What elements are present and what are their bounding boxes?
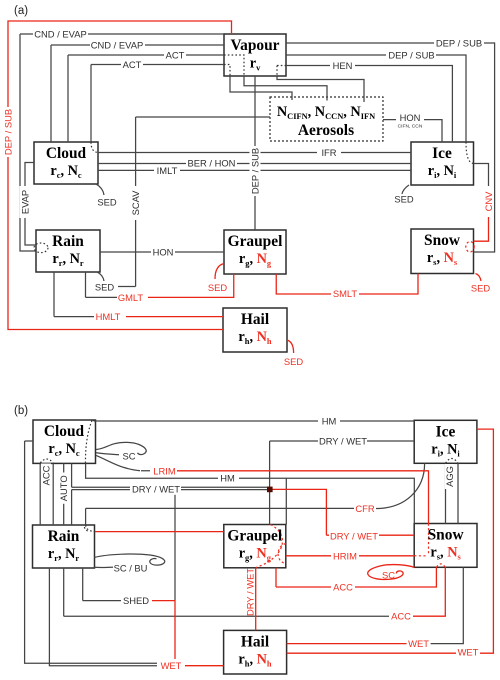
svg-text:HMLT: HMLT bbox=[96, 311, 121, 322]
svg-text:SED: SED bbox=[284, 356, 304, 367]
svg-text:WET: WET bbox=[161, 660, 182, 671]
svg-text:WET: WET bbox=[408, 638, 429, 649]
svg-text:Ice: Ice bbox=[436, 424, 456, 441]
svg-text:CNV: CNV bbox=[483, 191, 494, 212]
svg-text:Ice: Ice bbox=[432, 145, 452, 162]
svg-text:HRIM: HRIM bbox=[333, 551, 357, 562]
svg-text:Vapour: Vapour bbox=[230, 37, 279, 54]
svg-text:LRIM: LRIM bbox=[153, 466, 176, 477]
svg-text:rc, Nc: rc, Nc bbox=[48, 441, 80, 458]
svg-text:Rain: Rain bbox=[48, 528, 80, 545]
svg-text:ACC: ACC bbox=[391, 611, 411, 622]
svg-text:rr, Nr: rr, Nr bbox=[48, 546, 80, 563]
svg-text:Cloud: Cloud bbox=[44, 423, 85, 440]
svg-text:CIFN, CCN: CIFN, CCN bbox=[398, 123, 423, 129]
svg-text:(a): (a) bbox=[14, 5, 28, 17]
svg-text:IMLT: IMLT bbox=[157, 165, 178, 176]
svg-text:Cloud: Cloud bbox=[46, 145, 87, 162]
svg-text:IFR: IFR bbox=[321, 147, 336, 158]
svg-text:DEP / SUB: DEP / SUB bbox=[388, 49, 434, 60]
svg-text:ACT: ACT bbox=[166, 49, 185, 60]
svg-text:rh, Nh: rh, Nh bbox=[238, 329, 272, 346]
svg-text:rr, Nr: rr, Nr bbox=[52, 251, 84, 268]
svg-text:Graupel: Graupel bbox=[227, 528, 282, 545]
svg-text:SC: SC bbox=[122, 450, 135, 461]
svg-text:DRY / WET: DRY / WET bbox=[330, 531, 378, 542]
svg-text:HM: HM bbox=[322, 415, 337, 426]
svg-text:SCAV: SCAV bbox=[130, 190, 141, 216]
svg-text:rs, Ns: rs, Ns bbox=[430, 545, 461, 562]
svg-text:HON: HON bbox=[153, 246, 174, 257]
svg-text:ACC: ACC bbox=[333, 581, 353, 592]
svg-text:SMLT: SMLT bbox=[333, 288, 358, 299]
svg-text:SED: SED bbox=[97, 196, 117, 207]
svg-text:Hail: Hail bbox=[241, 634, 270, 651]
svg-text:Snow: Snow bbox=[428, 527, 465, 544]
svg-text:SED: SED bbox=[95, 281, 115, 292]
svg-text:DEP / SUB: DEP / SUB bbox=[436, 37, 482, 48]
svg-text:(b): (b) bbox=[14, 405, 28, 417]
svg-text:Graupel: Graupel bbox=[228, 233, 283, 250]
svg-text:SED: SED bbox=[208, 282, 228, 293]
svg-text:SED: SED bbox=[471, 282, 491, 293]
svg-text:SC: SC bbox=[382, 570, 395, 581]
svg-text:DRY / WET: DRY / WET bbox=[245, 568, 256, 616]
svg-text:ri, Ni: ri, Ni bbox=[428, 163, 457, 180]
svg-text:rh, Nh: rh, Nh bbox=[238, 652, 272, 669]
svg-text:DEP / SUB: DEP / SUB bbox=[2, 109, 13, 155]
svg-text:CND / EVAP: CND / EVAP bbox=[91, 39, 143, 50]
svg-text:SC / BU: SC / BU bbox=[114, 562, 148, 573]
svg-text:DRY / WET: DRY / WET bbox=[132, 484, 180, 495]
svg-text:SED: SED bbox=[394, 193, 414, 204]
svg-text:DEP / SUB: DEP / SUB bbox=[249, 148, 260, 194]
svg-text:HEN: HEN bbox=[333, 60, 353, 71]
svg-text:HON: HON bbox=[400, 112, 421, 123]
svg-text:Rain: Rain bbox=[52, 233, 84, 250]
svg-text:CFR: CFR bbox=[355, 503, 374, 514]
svg-text:Aerosols: Aerosols bbox=[298, 122, 354, 139]
svg-text:Snow: Snow bbox=[424, 232, 461, 249]
svg-text:AGG: AGG bbox=[444, 466, 455, 487]
svg-text:ACT: ACT bbox=[123, 59, 142, 70]
svg-text:Hail: Hail bbox=[241, 311, 270, 328]
svg-text:rs, Ns: rs, Ns bbox=[427, 250, 458, 267]
svg-text:HM: HM bbox=[220, 473, 235, 484]
svg-text:ri, Ni: ri, Ni bbox=[431, 442, 460, 459]
svg-text:SHED: SHED bbox=[123, 595, 149, 606]
svg-text:WET: WET bbox=[458, 647, 479, 658]
svg-text:rc, Nc: rc, Nc bbox=[50, 163, 82, 180]
svg-text:AUTO: AUTO bbox=[58, 475, 69, 501]
svg-text:GMLT: GMLT bbox=[118, 292, 144, 303]
svg-text:BER / HON: BER / HON bbox=[188, 157, 236, 168]
svg-text:EVAP: EVAP bbox=[19, 190, 30, 214]
svg-text:DRY / WET: DRY / WET bbox=[319, 435, 367, 446]
svg-text:CND / EVAP: CND / EVAP bbox=[34, 28, 86, 39]
svg-text:ACC: ACC bbox=[40, 465, 51, 485]
